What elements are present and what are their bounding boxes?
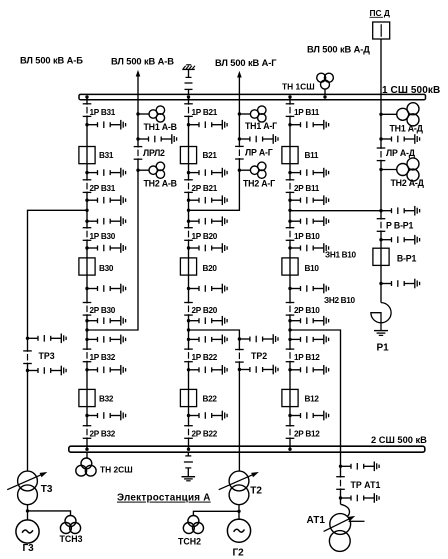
svg-text:ТР3: ТР3 — [39, 351, 55, 361]
svg-text:1Р В21: 1Р В21 — [192, 108, 218, 117]
svg-text:Р В-Р1: Р В-Р1 — [386, 220, 413, 230]
svg-text:АТ1: АТ1 — [307, 515, 326, 526]
svg-text:Г3: Г3 — [23, 543, 35, 554]
svg-text:В22: В22 — [203, 395, 218, 404]
svg-text:Т2: Т2 — [250, 486, 262, 497]
svg-text:1Р В12: 1Р В12 — [294, 353, 320, 362]
svg-text:Электростанция А: Электростанция А — [117, 493, 211, 504]
svg-text:ТН 2СШ: ТН 2СШ — [100, 465, 133, 475]
svg-text:1Р В22: 1Р В22 — [192, 353, 218, 362]
svg-text:ТСН2: ТСН2 — [178, 536, 201, 546]
svg-text:2Р В22: 2Р В22 — [192, 429, 218, 438]
svg-text:ВЛ 500 кВ А-Г: ВЛ 500 кВ А-Г — [215, 58, 277, 68]
svg-text:ТН1 А-Д: ТН1 А-Д — [390, 123, 424, 133]
svg-text:В30: В30 — [99, 264, 114, 273]
svg-text:В-Р1: В-Р1 — [397, 253, 417, 263]
svg-text:ВЛ 500 кВ А-Б: ВЛ 500 кВ А-Б — [20, 56, 83, 66]
svg-text:ЛРЛ2: ЛРЛ2 — [143, 148, 165, 158]
svg-text:2Р В21: 2Р В21 — [192, 184, 218, 193]
svg-text:ТН 1СШ: ТН 1СШ — [282, 82, 315, 92]
svg-text:1Р В30: 1Р В30 — [90, 232, 116, 241]
svg-text:2Р В30: 2Р В30 — [90, 306, 116, 315]
svg-text:ВЛ 500 кВ А-В: ВЛ 500 кВ А-В — [111, 57, 174, 67]
svg-text:ТН2 А-Г: ТН2 А-Г — [243, 178, 275, 188]
svg-text:ВЛ 500 кВ А-Д: ВЛ 500 кВ А-Д — [307, 45, 370, 55]
svg-text:В10: В10 — [305, 264, 320, 273]
svg-text:В31: В31 — [99, 151, 114, 160]
svg-text:2Р В12: 2Р В12 — [294, 429, 320, 438]
svg-text:В32: В32 — [99, 395, 114, 404]
svg-text:В11: В11 — [305, 151, 319, 160]
svg-text:ЗН2 В10: ЗН2 В10 — [324, 296, 356, 305]
svg-text:В21: В21 — [203, 151, 218, 160]
svg-text:ТН2 А-В: ТН2 А-В — [144, 178, 177, 188]
svg-text:2Р В10: 2Р В10 — [294, 306, 320, 315]
svg-text:ЛР А-Г: ЛР А-Г — [245, 147, 273, 157]
svg-text:2Р В31: 2Р В31 — [90, 184, 116, 193]
svg-text:2Р В11: 2Р В11 — [294, 184, 320, 193]
svg-text:ТН1 А-Г: ТН1 А-Г — [245, 121, 277, 131]
svg-text:ЛР А-Д: ЛР А-Д — [386, 148, 416, 158]
svg-text:1Р В31: 1Р В31 — [90, 108, 116, 117]
svg-text:2Р В32: 2Р В32 — [90, 429, 116, 438]
svg-text:1Р В32: 1Р В32 — [90, 353, 116, 362]
svg-text:ТР АТ1: ТР АТ1 — [351, 480, 381, 490]
svg-text:1 СШ 500кВ: 1 СШ 500кВ — [382, 85, 440, 96]
svg-text:ТН1 А-В: ТН1 А-В — [144, 122, 177, 132]
svg-text:ПС Д: ПС Д — [370, 8, 390, 18]
svg-text:2Р В20: 2Р В20 — [192, 306, 218, 315]
svg-text:1Р В10: 1Р В10 — [294, 232, 320, 241]
svg-text:ТСН3: ТСН3 — [60, 534, 83, 544]
svg-text:В20: В20 — [203, 264, 218, 273]
svg-text:В12: В12 — [305, 395, 320, 404]
svg-text:Р1: Р1 — [377, 343, 390, 354]
svg-text:1Р В20: 1Р В20 — [192, 232, 218, 241]
svg-text:1Р В11: 1Р В11 — [294, 108, 320, 117]
svg-text:2 СШ 500 кВ: 2 СШ 500 кВ — [371, 435, 427, 445]
svg-text:Г2: Г2 — [233, 548, 245, 559]
svg-text:ЗН1 В10: ЗН1 В10 — [325, 250, 357, 259]
svg-text:Т3: Т3 — [41, 484, 53, 495]
svg-text:ТН2 А-Д: ТН2 А-Д — [391, 178, 425, 188]
svg-text:ТР2: ТР2 — [251, 351, 267, 361]
